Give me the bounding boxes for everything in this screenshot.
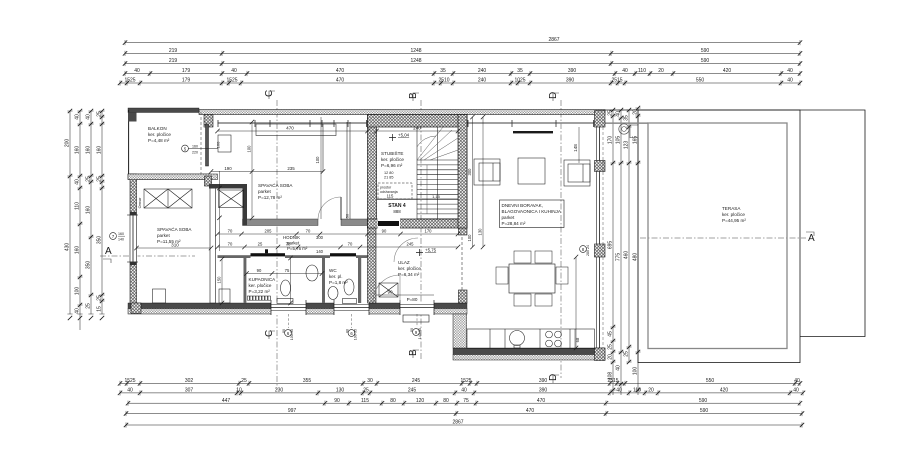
svg-text:160: 160 (85, 146, 91, 155)
svg-text:40: 40 (231, 68, 237, 74)
svg-text:40: 40 (615, 111, 621, 117)
entry door opening in bottom wall (400, 300, 434, 327)
interior dim 310 bedroom1 (134, 243, 213, 251)
svg-text:2510: 2510 (438, 78, 449, 84)
svg-text:80: 80 (346, 329, 350, 333)
balcony corner block (128, 113, 137, 122)
svg-text:P=44,95 m²: P=44,95 m² (722, 218, 746, 223)
corridor dim chain lower (215, 242, 460, 254)
svg-text:25: 25 (607, 344, 613, 350)
svg-text:1025: 1025 (514, 78, 525, 84)
svg-text:100: 100 (247, 145, 252, 153)
bedroom2 desk (218, 135, 231, 152)
bedroom2 south wall (243, 219, 368, 226)
svg-text:115: 115 (387, 194, 394, 199)
svg-text:parket: parket (258, 189, 271, 194)
room label SPAVACA SOBA 1 (157, 226, 192, 244)
svg-text:108: 108 (607, 372, 613, 381)
interior vertical dim living right (574, 255, 578, 350)
bedroom1 east wall (210, 186, 216, 303)
svg-text:25: 25 (96, 295, 102, 301)
bathroom sink (306, 265, 318, 281)
svg-text:160: 160 (118, 232, 124, 236)
dim chain bottom row 447/90/115/80/120... (126, 398, 802, 406)
svg-text:470: 470 (336, 78, 345, 84)
svg-text:140: 140 (118, 238, 124, 242)
bedroom2 wardrobe strip (256, 124, 336, 172)
svg-text:2867: 2867 (452, 420, 463, 426)
window W6a in bottom wall (271, 300, 306, 328)
ulaz west wall (368, 226, 377, 304)
svg-text:P=28,84 m²: P=28,84 m² (502, 221, 526, 226)
svg-text:40: 40 (793, 388, 799, 394)
svg-text:120: 120 (416, 398, 425, 404)
svg-text:40: 40 (794, 378, 800, 384)
svg-text:70: 70 (286, 242, 291, 247)
corner block bottom-left (131, 303, 141, 314)
wc toilet (343, 279, 357, 304)
svg-text:ULAZ: ULAZ (398, 260, 410, 265)
kupaonica east wall (322, 258, 325, 303)
svg-text:12 80: 12 80 (384, 171, 394, 175)
svg-text:123: 123 (623, 141, 629, 150)
kitchen counter (467, 329, 595, 349)
balcony door leaf (206, 124, 209, 166)
svg-text:205: 205 (265, 229, 273, 234)
svg-text:75: 75 (285, 268, 290, 273)
interior dim 150 bathtub (217, 257, 225, 305)
window W7 in left wall (127, 212, 138, 265)
svg-text:100: 100 (74, 287, 80, 296)
svg-text:590: 590 (701, 58, 710, 64)
bottom wall insulation strip (128, 309, 467, 315)
svg-text:110: 110 (74, 202, 80, 210)
window mark 7 (110, 232, 125, 242)
svg-text:550: 550 (696, 78, 705, 84)
tv sideboard line (513, 131, 553, 133)
svg-text:997: 997 (288, 408, 297, 414)
window W6b in bottom wall (334, 300, 369, 328)
svg-text:110: 110 (638, 68, 646, 74)
dim chain right col 695 (607, 108, 615, 395)
kitchen stove (546, 331, 562, 347)
svg-text:775: 775 (615, 253, 621, 262)
room label HODNIK (283, 235, 308, 251)
dim chain top row2 219/1248/590 (123, 58, 802, 66)
svg-text:590: 590 (700, 408, 709, 414)
bedroom1 nightstand (153, 289, 166, 303)
maintenance space dashed box (378, 183, 412, 199)
stair landing line 1,15 (377, 194, 458, 199)
svg-text:P=1,8 m²: P=1,8 m² (329, 280, 348, 285)
stairwell left wall (368, 115, 377, 229)
svg-text:140: 140 (316, 249, 324, 254)
svg-text:1525: 1525 (460, 378, 471, 384)
svg-text:300: 300 (316, 235, 324, 240)
elevation mark +5.04 (389, 133, 410, 142)
svg-text:179: 179 (182, 68, 191, 74)
svg-text:100-95: 100-95 (354, 329, 358, 340)
svg-text:40: 40 (615, 365, 621, 371)
wc door leaf bar (330, 253, 356, 256)
section line D (548, 92, 561, 383)
svg-text:219: 219 (169, 48, 178, 54)
svg-text:25: 25 (85, 176, 91, 182)
svg-text:80: 80 (443, 398, 449, 404)
dim chain left col 25/160/350 (96, 109, 104, 320)
stairwell top wall (368, 115, 468, 128)
terrace drain symbol (619, 124, 638, 138)
room label SPAVACA SOBA 2 (258, 182, 293, 200)
svg-text:68: 68 (575, 337, 580, 342)
kupaonica vertical dim (288, 256, 292, 305)
svg-text:A: A (105, 246, 112, 257)
terrace threshold line (605, 122, 648, 124)
svg-text:+5,04: +5,04 (398, 133, 410, 138)
svg-text:40: 40 (461, 388, 467, 394)
svg-text:25: 25 (623, 351, 629, 357)
svg-text:160: 160 (74, 146, 80, 155)
svg-text:420: 420 (723, 68, 732, 74)
svg-text:240: 240 (478, 68, 487, 74)
svg-text:307: 307 (185, 388, 194, 394)
left exterior wall (130, 174, 137, 308)
dim chain top row 219/1248/590 (123, 48, 802, 56)
svg-text:470: 470 (537, 398, 546, 404)
svg-text:parket: parket (502, 215, 515, 220)
glass window terrace upper (597, 127, 604, 244)
bedroom2 dim 190/235 (209, 166, 325, 174)
svg-text:P=6,96 m²: P=6,96 m² (381, 163, 403, 168)
svg-text:80: 80 (282, 329, 286, 333)
svg-text:40: 40 (127, 388, 133, 394)
svg-text:40: 40 (74, 114, 80, 120)
entry doormat outside (403, 315, 429, 322)
terrace outer edge (638, 110, 800, 363)
svg-text:430: 430 (64, 243, 70, 252)
section line A left (100, 246, 195, 263)
dim chain left col 40/160/25/350 (85, 109, 93, 320)
svg-text:P=3,22 m²: P=3,22 m² (249, 289, 271, 294)
svg-text:390: 390 (568, 68, 577, 74)
wc sink (328, 287, 338, 300)
svg-text:130: 130 (336, 388, 345, 394)
svg-text:160: 160 (192, 145, 198, 149)
living vertical dim line b (478, 115, 486, 249)
svg-text:90: 90 (387, 290, 393, 295)
svg-text:20: 20 (658, 68, 664, 74)
svg-text:35: 35 (517, 68, 523, 74)
svg-text:350: 350 (96, 236, 102, 245)
living vertical dim line a (467, 115, 475, 249)
interior dim 240 stairwell (374, 126, 460, 134)
svg-text:160: 160 (85, 206, 91, 215)
svg-text:80: 80 (390, 398, 396, 404)
svg-text:1525: 1525 (124, 378, 135, 384)
svg-text:235: 235 (287, 166, 295, 171)
dim chain bottom row 302/355/245/390/550 (118, 378, 802, 386)
svg-text:100: 100 (315, 156, 320, 164)
svg-text:310: 310 (171, 243, 179, 248)
svg-text:390: 390 (539, 378, 548, 384)
dim chain right col 480 (632, 106, 640, 395)
svg-text:170: 170 (425, 229, 433, 234)
svg-text:40: 40 (85, 114, 91, 120)
section line C (264, 90, 277, 390)
svg-text:200: 200 (64, 139, 70, 148)
svg-text:115: 115 (361, 398, 369, 404)
interior dim 470 bedroom2 (215, 126, 369, 134)
svg-text:355: 355 (303, 378, 312, 384)
svg-text:70: 70 (228, 229, 233, 234)
sofa coffee table (518, 158, 545, 184)
bottom exterior wall (128, 303, 467, 309)
svg-text:SPAVAĆA SOBA: SPAVAĆA SOBA (258, 182, 293, 188)
living room south wall (453, 348, 605, 355)
svg-text:447: 447 (222, 398, 231, 404)
svg-text:170: 170 (607, 136, 613, 145)
svg-text:1248: 1248 (410, 58, 421, 64)
kupaonica door leaf bar (251, 249, 286, 256)
dim chain left col 40/160/110/160 (74, 109, 82, 330)
svg-text:50: 50 (346, 214, 350, 218)
ulaz closet (379, 283, 398, 297)
dim chain bottom total 2867 (124, 420, 804, 428)
stair direction line (426, 165, 428, 214)
room label KUPAONICA (249, 277, 277, 294)
living east wall pier A (595, 161, 606, 172)
svg-text:40: 40 (787, 68, 793, 74)
svg-text:70: 70 (348, 242, 353, 247)
interior dim 90 ulaz (376, 290, 434, 302)
bedroom1 wardrobe (144, 189, 192, 208)
svg-text:HODNIK: HODNIK (283, 235, 300, 240)
svg-text:390: 390 (539, 388, 548, 394)
elevation mark +5.75 (416, 248, 437, 257)
svg-text:STUBIŠTE: STUBIŠTE (381, 150, 403, 156)
svg-text:480: 480 (632, 253, 638, 262)
svg-text:80: 80 (410, 328, 414, 332)
svg-text:40: 40 (134, 68, 140, 74)
svg-text:470: 470 (336, 68, 345, 74)
dim chain left col 200/430 (64, 109, 72, 320)
wall below balcony (128, 174, 218, 180)
section line B (408, 92, 421, 360)
bedroom2 closet (217, 171, 243, 251)
living east wall pier B (595, 244, 606, 257)
apartment entry door leaf bar (378, 221, 399, 226)
svg-text:25: 25 (258, 242, 263, 247)
svg-text:ker. pločice: ker. pločice (398, 266, 421, 271)
section line A right (640, 232, 815, 244)
svg-text:190: 190 (224, 166, 232, 171)
top wall inner face living window (467, 120, 595, 127)
svg-text:245: 245 (408, 388, 417, 394)
svg-text:40: 40 (787, 78, 793, 84)
svg-text:245: 245 (407, 242, 415, 247)
svg-text:105: 105 (615, 136, 621, 145)
window mark 6a (282, 329, 294, 340)
svg-text:148: 148 (573, 144, 578, 152)
svg-text:21 85: 21 85 (384, 176, 394, 180)
svg-text:420: 420 (720, 388, 729, 394)
svg-text:20: 20 (607, 354, 613, 360)
washing machine (219, 289, 230, 303)
east wall of left block (459, 117, 468, 235)
svg-text:BALKON: BALKON (148, 126, 167, 131)
svg-text:40: 40 (622, 68, 628, 74)
svg-text:40: 40 (74, 308, 80, 314)
bedroom2 vertical dim 100 (247, 120, 255, 220)
svg-text:219: 219 (169, 58, 178, 64)
svg-text:245: 245 (412, 378, 421, 384)
svg-text:300: 300 (467, 168, 472, 176)
bedroom2 partition line (347, 122, 350, 219)
window mark 6b (346, 329, 358, 340)
svg-text:240: 240 (478, 78, 487, 84)
svg-text:WC: WC (329, 268, 337, 273)
stairwell bottom wall (368, 219, 468, 228)
svg-text:25: 25 (85, 303, 91, 309)
svg-text:140-95: 140-95 (418, 328, 422, 339)
svg-text:695: 695 (607, 241, 613, 250)
svg-text:parket: parket (157, 233, 170, 238)
svg-text:25: 25 (363, 388, 369, 394)
svg-text:25: 25 (96, 111, 102, 117)
living east wall upper corner (595, 111, 606, 128)
apartment entry door gap (378, 219, 401, 229)
svg-text:Ormar: Ormar (138, 197, 142, 208)
svg-text:1,15: 1,15 (432, 194, 441, 199)
svg-text:45: 45 (607, 331, 613, 337)
svg-text:888: 888 (393, 209, 401, 214)
svg-text:160: 160 (96, 146, 102, 155)
svg-text:100: 100 (467, 234, 472, 242)
dim chain top total 2867 (123, 37, 802, 45)
svg-text:1525: 1525 (124, 78, 135, 84)
balcony top wall (128, 108, 199, 113)
stair flight treads (417, 127, 458, 219)
svg-text:2867: 2867 (548, 37, 559, 43)
door mark 9 (410, 328, 422, 339)
svg-text:100-95: 100-95 (290, 329, 294, 340)
svg-text:20: 20 (648, 388, 654, 394)
svg-text:DNEVNI BORAVAK,: DNEVNI BORAVAK, (502, 203, 543, 208)
svg-text:ker. pločice: ker. pločice (249, 283, 272, 288)
bedroom2 closet niche wall vertical (243, 189, 248, 226)
living west step wall (453, 314, 467, 348)
svg-text:302: 302 (185, 378, 194, 384)
svg-text:KUPAONICA: KUPAONICA (249, 277, 277, 282)
svg-text:35: 35 (440, 68, 446, 74)
dining table (509, 264, 555, 293)
interior dim 148 living (573, 127, 579, 163)
ulaz entry door arc (373, 275, 400, 302)
svg-text:P=80: P=80 (407, 297, 418, 302)
bathroom shower niche (243, 258, 245, 303)
svg-text:30: 30 (367, 378, 373, 384)
dim chain right col 775 (615, 108, 623, 395)
room label TERASA (722, 206, 746, 223)
svg-text:550: 550 (706, 378, 715, 384)
bedroom2 door leaf and arc (318, 197, 341, 220)
svg-text:130: 130 (478, 228, 483, 236)
wc east wall (358, 258, 361, 303)
window mark 8 (580, 245, 590, 256)
east wall lower segment (459, 290, 468, 303)
svg-text:220: 220 (192, 151, 198, 155)
svg-text:25: 25 (96, 176, 102, 182)
dining chairs (496, 251, 568, 306)
svg-text:15: 15 (96, 306, 102, 312)
terrace inner edge (648, 123, 787, 349)
svg-text:70: 70 (228, 242, 233, 247)
svg-text:90: 90 (257, 268, 262, 273)
svg-text:25: 25 (607, 110, 613, 116)
svg-text:150: 150 (217, 276, 222, 284)
sofa left armchair (474, 159, 500, 185)
svg-text:460: 460 (623, 251, 629, 260)
bedroom2 closet niche wall horizontal (209, 184, 247, 189)
balcony left edge (128, 110, 130, 175)
svg-text:350: 350 (85, 261, 91, 270)
svg-text:470: 470 (286, 126, 294, 131)
svg-text:P=12,78 m²: P=12,78 m² (258, 195, 282, 200)
svg-text:1525: 1525 (226, 78, 237, 84)
svg-text:90: 90 (334, 398, 340, 404)
upper-floor boundary outline (605, 110, 865, 337)
svg-text:25: 25 (241, 378, 247, 384)
svg-text:BLAGOVAONICA I KUHINJA: BLAGOVAONICA I KUHINJA (502, 209, 562, 214)
svg-text:590: 590 (701, 48, 710, 54)
exterior top wall (insulated) (199, 110, 605, 115)
interior dim 90/75 kupaonica (244, 268, 324, 276)
svg-text:179: 179 (182, 78, 191, 84)
bedroom1 east wall hatch block (205, 176, 212, 186)
svg-text:280 24: 280 24 (586, 245, 590, 256)
svg-text:240: 240 (413, 126, 421, 131)
dim chain top row 40/179/40/470... (123, 68, 802, 76)
room label DNEVNI BORAVAK box (500, 200, 565, 228)
svg-text:ker. pločice: ker. pločice (148, 132, 171, 137)
corridor-ulaz door arc (394, 238, 418, 262)
svg-text:165: 165 (632, 136, 638, 145)
dim chain bottom row 40/307/230/130... (118, 388, 805, 396)
svg-text:90: 90 (382, 229, 387, 234)
window mark 5 (182, 145, 218, 155)
bathroom toilet (277, 280, 293, 304)
svg-text:ker. pločice: ker. pločice (381, 157, 404, 162)
svg-text:390: 390 (566, 78, 575, 84)
corridor south wall (218, 255, 368, 258)
svg-text:2515: 2515 (611, 78, 622, 84)
svg-text:100: 100 (632, 367, 638, 376)
svg-text:70: 70 (306, 229, 311, 234)
room label BALKON (148, 126, 171, 143)
stairwell right wall (458, 115, 467, 229)
svg-text:ker. pločice: ker. pločice (722, 212, 745, 217)
svg-text:160: 160 (74, 246, 80, 255)
svg-text:35: 35 (623, 115, 629, 121)
svg-text:10: 10 (236, 388, 242, 394)
svg-text:230: 230 (275, 388, 284, 394)
living east wall lower corner (595, 348, 606, 361)
svg-text:SPAVAĆA SOBA: SPAVAĆA SOBA (157, 226, 192, 232)
interior dim 100 bedroom2 left (315, 117, 321, 219)
svg-text:TERASA: TERASA (722, 206, 741, 211)
svg-text:160: 160 (216, 141, 221, 148)
svg-text:P=6,34 m²: P=6,34 m² (398, 272, 420, 277)
